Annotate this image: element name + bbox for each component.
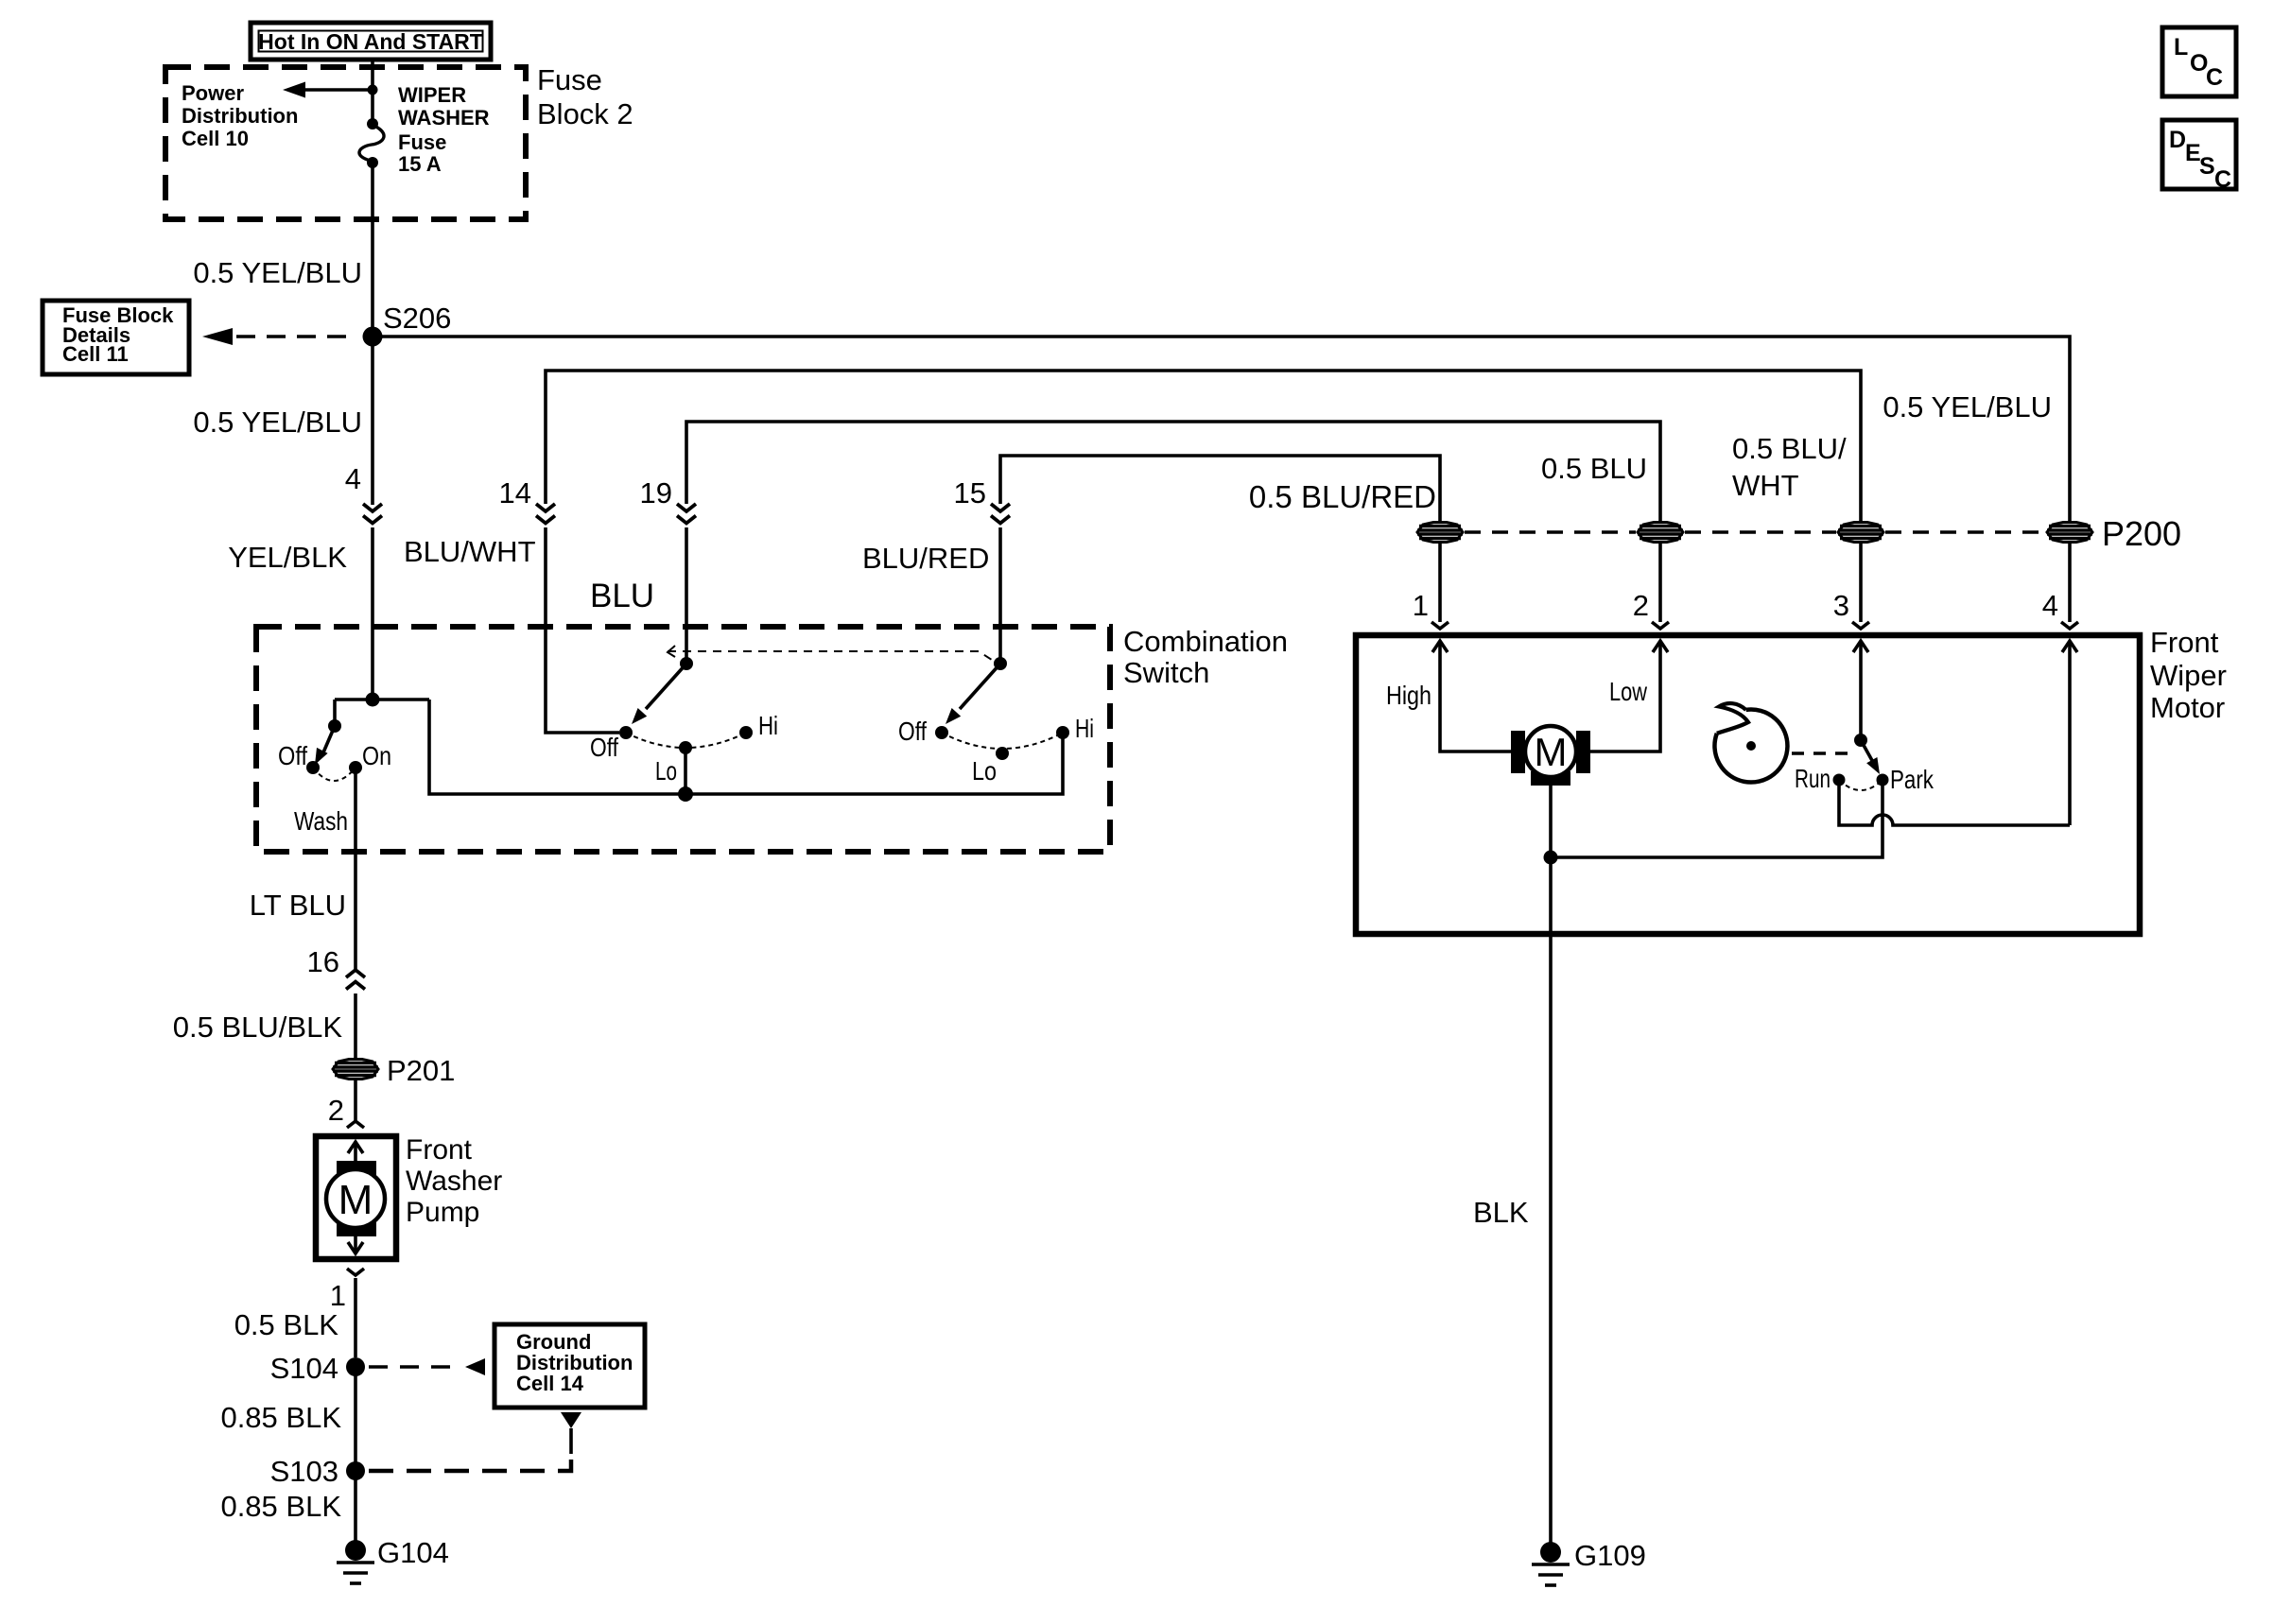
svg-text:Front: Front <box>406 1134 473 1166</box>
LOC reference box <box>2162 27 2236 96</box>
svg-text:1: 1 <box>1413 589 1429 622</box>
wire pin2 Low to motor <box>1590 641 1660 752</box>
svg-text:2: 2 <box>1633 589 1649 622</box>
dashed throw arc wash <box>313 768 356 781</box>
svg-text:0.5 BLU/: 0.5 BLU/ <box>1732 432 1847 465</box>
svg-text:15 A: 15 A <box>398 152 442 176</box>
wire P200-3 to motor pin3 <box>1859 543 1863 622</box>
contact Hi sw2 <box>739 726 753 739</box>
label Front Wiper Motor <box>2150 626 2227 724</box>
wire BLK motor to G109 <box>1549 934 1553 1543</box>
pin 19 connector <box>640 476 696 524</box>
pin 2 washer pump <box>328 1094 364 1128</box>
contact Off sw2 <box>619 726 633 739</box>
svg-text:2: 2 <box>328 1094 344 1127</box>
svg-text:D: D <box>2169 127 2186 153</box>
wire P200-1 to motor pin1 <box>1438 543 1442 622</box>
wire 0.5 YEL/BLU S206 down to pin 4 <box>371 337 374 505</box>
label box Fuse Block Details Cell 11 <box>43 301 189 374</box>
wire BLU to pivot sw2 <box>685 527 688 664</box>
label 0.5 BLU/WHT <box>1732 432 1847 502</box>
pin 3 front wiper motor <box>1833 589 1869 652</box>
wiper switch arm sw2 <box>632 657 693 724</box>
contact Lo sw2 <box>679 741 692 754</box>
svg-text:Cell 10: Cell 10 <box>182 127 249 150</box>
wire park contact to junction <box>1551 780 1883 857</box>
DESC reference box <box>2162 120 2236 193</box>
svg-text:0.5 YEL/BLU: 0.5 YEL/BLU <box>1883 390 2052 423</box>
wire Lo sw2 to bus <box>684 748 687 794</box>
label Power Distribution Cell 10 <box>182 81 298 150</box>
contact Run <box>1833 774 1846 786</box>
svg-text:Cell 11: Cell 11 <box>62 342 129 366</box>
svg-text:Off: Off <box>590 733 618 762</box>
mechanical link dashed sw2-sw3 <box>668 646 995 662</box>
label WIPER WASHER Fuse 15 A <box>398 83 490 176</box>
contact Lo sw3 <box>996 747 1009 760</box>
dashed throw arc sw3 <box>942 733 1063 749</box>
wire 0.5 BLK <box>354 1278 357 1357</box>
svg-text:Power: Power <box>182 81 244 105</box>
svg-text:0.5 BLU: 0.5 BLU <box>1541 452 1647 485</box>
svg-text:L: L <box>2174 34 2188 60</box>
wire YEL/BLK pin4 into switch <box>371 527 374 700</box>
connector P200 pin1 <box>1417 523 1463 543</box>
svg-text:14: 14 <box>499 476 531 510</box>
connector P200 pin3 <box>1838 523 1883 543</box>
dashed arrow S206 to Fuse Block Details <box>202 328 354 345</box>
svg-text:BLU/RED: BLU/RED <box>862 542 989 575</box>
svg-text:S103: S103 <box>270 1455 338 1488</box>
ground G109 <box>1532 1539 1646 1585</box>
wire to wash pivot <box>333 700 337 726</box>
wire BLU/WHT switch pin14 to P200 pin 3 <box>546 371 1861 522</box>
wire P200-2 to motor pin2 <box>1658 543 1662 622</box>
dashed arrow S104 to Ground Distribution <box>369 1358 485 1375</box>
svg-text:Switch: Switch <box>1123 656 1209 689</box>
svg-text:G109: G109 <box>1574 1539 1646 1572</box>
motor M (wiper) <box>1511 726 1590 786</box>
wire arrow to Power Distribution <box>283 82 373 98</box>
svg-text:Combination: Combination <box>1123 625 1288 658</box>
svg-text:S: S <box>2199 153 2215 180</box>
svg-text:M: M <box>338 1177 373 1223</box>
svg-text:0.5 BLU/BLK: 0.5 BLU/BLK <box>173 1011 343 1044</box>
dashed throw arc run/park <box>1839 780 1883 790</box>
svg-text:S104: S104 <box>270 1352 338 1385</box>
node wash feed junction <box>335 693 429 707</box>
node bus / Lo junction <box>678 786 693 802</box>
svg-text:16: 16 <box>307 945 339 978</box>
svg-text:P201: P201 <box>387 1054 455 1087</box>
svg-text:Hi: Hi <box>758 711 778 740</box>
svg-text:Off: Off <box>278 741 307 770</box>
connector P201 <box>333 1054 455 1087</box>
svg-text:Pump: Pump <box>406 1197 479 1228</box>
front wiper motor box <box>1356 635 2140 934</box>
pin 4 connector <box>345 462 382 524</box>
svg-text:0.5 BLK: 0.5 BLK <box>234 1308 339 1341</box>
svg-text:G104: G104 <box>377 1536 449 1569</box>
label Fuse Block 2 <box>537 63 633 130</box>
contact Off sw3 <box>935 726 948 739</box>
svg-text:Block 2: Block 2 <box>537 97 633 130</box>
wash switch arm <box>315 719 341 765</box>
ground G104 <box>337 1536 449 1583</box>
svg-text:C: C <box>2214 166 2231 193</box>
svg-text:Lo: Lo <box>972 756 997 786</box>
wire wiper low bus <box>429 700 1063 794</box>
svg-text:3: 3 <box>1833 589 1849 622</box>
svg-text:0.85 BLK: 0.85 BLK <box>220 1401 341 1434</box>
combination switch dashed box <box>256 627 1110 852</box>
pin 15 connector <box>954 476 1010 524</box>
label Front Washer Pump <box>406 1134 502 1228</box>
wire P201 to pump pin2 <box>354 1080 357 1120</box>
svg-text:Fuse: Fuse <box>537 63 602 96</box>
park cam <box>1714 703 1787 782</box>
contact Hi sw3 <box>1056 726 1069 739</box>
svg-text:Distribution: Distribution <box>182 104 298 128</box>
svg-text:Park: Park <box>1890 765 1935 794</box>
svg-text:BLU/WHT: BLU/WHT <box>404 535 536 568</box>
svg-text:19: 19 <box>640 476 672 510</box>
contact On (wash) <box>349 761 362 774</box>
svg-text:M: M <box>1535 730 1568 774</box>
node S103 splice <box>270 1455 365 1488</box>
label Combination Switch <box>1123 625 1288 689</box>
wire P200-4 to motor pin4 <box>2068 543 2072 622</box>
fuse WIPER WASHER 15 A <box>359 118 384 168</box>
svg-text:0.5 BLU/RED: 0.5 BLU/RED <box>1249 479 1436 514</box>
pin 4 front wiper motor <box>2042 589 2078 652</box>
svg-text:Low: Low <box>1609 677 1648 706</box>
svg-text:0.5 YEL/BLU: 0.5 YEL/BLU <box>193 406 362 439</box>
wiper switch arm sw3 <box>946 657 1007 724</box>
svg-text:Wash: Wash <box>294 806 348 836</box>
wire 0.5 BLU/BLK to P201 <box>354 993 357 1059</box>
pin 1 washer pump <box>330 1269 364 1312</box>
svg-text:LT BLU: LT BLU <box>250 889 346 922</box>
svg-text:WASHER: WASHER <box>398 106 490 130</box>
pin 2 front wiper motor <box>1633 589 1669 652</box>
wire 0.5 YEL/BLU S206 to P200 pin 4 <box>373 337 2070 522</box>
label box Ground Distribution Cell 14 <box>495 1324 645 1408</box>
wire LT BLU wash On down <box>354 768 357 970</box>
svg-text:High: High <box>1386 681 1431 710</box>
pin 14 connector <box>499 476 555 524</box>
wire motor to park junction / ground <box>1549 786 1553 934</box>
svg-text:Fuse: Fuse <box>398 130 446 154</box>
dashed connector line P200 <box>1465 530 2045 534</box>
connector P200 pin4 <box>2047 523 2092 543</box>
dashed link S103 to Ground Distribution <box>369 1412 581 1471</box>
svg-text:BLU: BLU <box>590 578 654 614</box>
wire BLU/WHT to Off contact sw2 <box>546 527 619 733</box>
svg-text:WIPER: WIPER <box>398 83 466 107</box>
svg-text:Off: Off <box>898 717 927 746</box>
pin 16 connector <box>307 945 365 990</box>
svg-text:Run: Run <box>1795 764 1831 793</box>
contact Off (wash) <box>306 761 320 774</box>
wire pin3 to park pivot <box>1859 641 1863 740</box>
node S206 splice <box>363 302 452 347</box>
wire pin4 down <box>2068 641 2072 825</box>
pin 1 front wiper motor <box>1413 589 1449 652</box>
contact Park <box>1877 774 1889 786</box>
svg-text:Washer: Washer <box>406 1166 502 1197</box>
park switch arm <box>1854 734 1880 774</box>
dashed cam link <box>1792 752 1851 755</box>
svg-text:0.85 BLK: 0.85 BLK <box>220 1490 341 1523</box>
node motor ground junction <box>1544 851 1558 865</box>
svg-text:BLK: BLK <box>1473 1196 1529 1229</box>
node feed junction <box>368 85 378 95</box>
svg-text:Front: Front <box>2150 626 2219 659</box>
svg-text:0.5 YEL/BLU: 0.5 YEL/BLU <box>193 256 362 289</box>
svg-text:WHT: WHT <box>1732 469 1799 502</box>
svg-text:15: 15 <box>954 476 986 510</box>
svg-text:4: 4 <box>2042 589 2058 622</box>
svg-text:Hot In ON And START: Hot In ON And START <box>258 29 483 54</box>
svg-text:Wiper: Wiper <box>2150 659 2227 692</box>
svg-text:4: 4 <box>345 462 361 495</box>
wire from Hot feed down to fuse <box>371 60 374 119</box>
wire BLU/RED to pivot sw3 <box>998 527 1002 664</box>
svg-text:Lo: Lo <box>655 756 677 786</box>
wire pin1 High to motor <box>1440 641 1511 752</box>
svg-text:C: C <box>2206 64 2223 91</box>
svg-text:1: 1 <box>330 1279 346 1312</box>
power label box "Hot In ON And START" <box>251 23 491 60</box>
node S104 splice <box>270 1352 365 1385</box>
svg-text:Cell 14: Cell 14 <box>516 1372 584 1395</box>
motor M (washer pump) <box>326 1142 385 1253</box>
wire 0.85 BLK S103-G104 <box>354 1471 357 1541</box>
svg-text:S206: S206 <box>383 302 451 335</box>
dashed throw arc sw2 <box>626 733 746 748</box>
wire 0.5 YEL/BLU fuse to S206 <box>371 163 374 337</box>
svg-text:On: On <box>362 741 391 770</box>
svg-text:P200: P200 <box>2102 514 2181 553</box>
wire Run to pin4 with hop <box>1839 780 2070 825</box>
svg-text:YEL/BLK: YEL/BLK <box>228 541 347 574</box>
wire 0.85 BLK S104-S103 <box>354 1367 357 1471</box>
fuse block 2 dashed box <box>165 67 526 219</box>
front washer pump box <box>316 1136 396 1259</box>
wire BLU/RED switch pin15 to P200 pin 1 <box>1000 456 1440 522</box>
connector P200 pin2 <box>1638 523 1683 543</box>
svg-text:Motor: Motor <box>2150 691 2225 724</box>
svg-text:Hi: Hi <box>1075 714 1094 743</box>
wire BLU switch pin19 to P200 pin 2 <box>686 422 1660 522</box>
